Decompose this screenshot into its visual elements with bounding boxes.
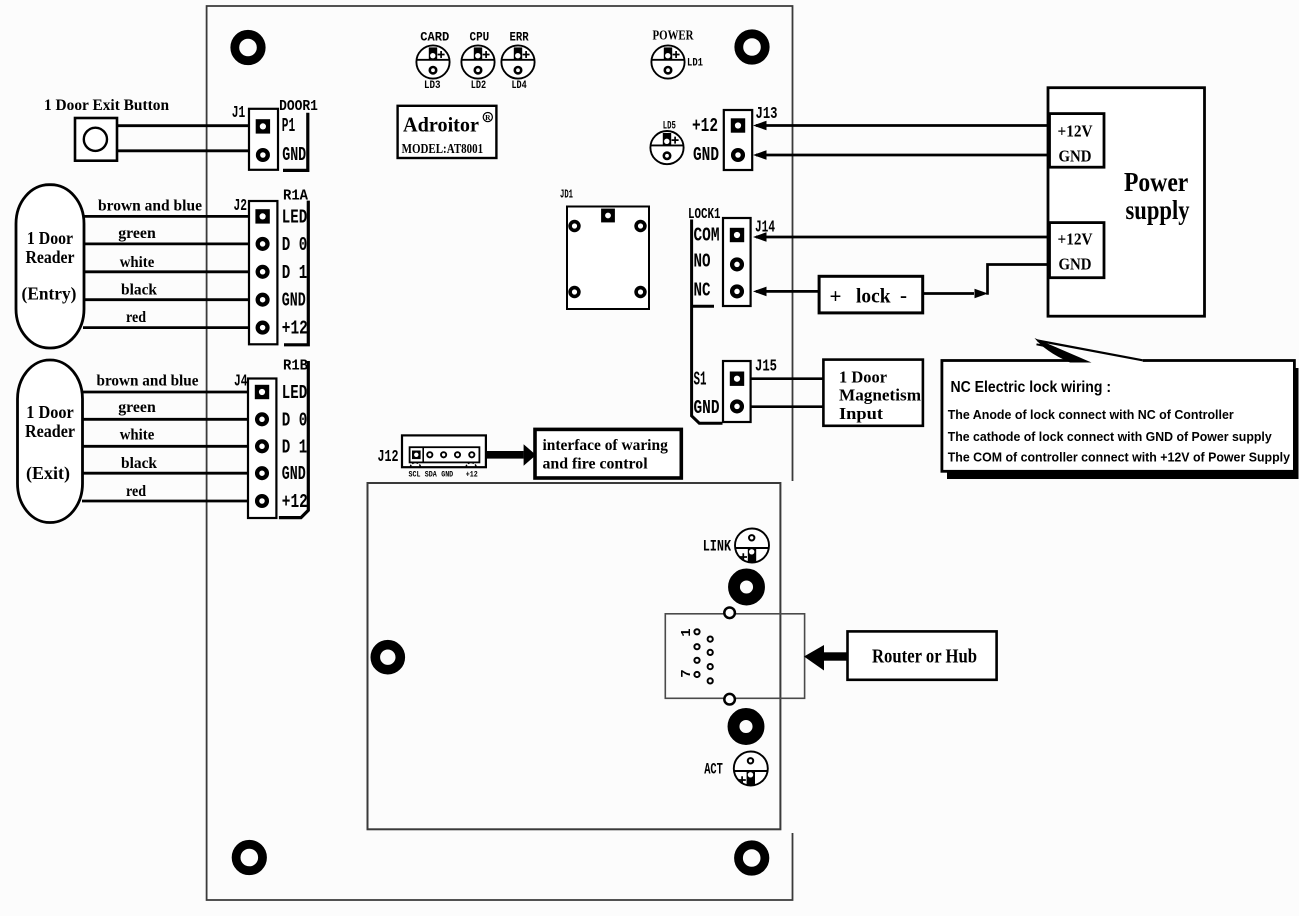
NC callout line 3	[948, 450, 1291, 465]
NC callout line 2	[948, 429, 1273, 444]
reader exit body	[18, 360, 83, 523]
pin label NC	[694, 280, 711, 302]
pin label D 1 J4	[282, 436, 308, 458]
wire label brown and blue exit	[97, 373, 199, 390]
svg-text:+12V: +12V	[1058, 121, 1094, 140]
svg-text:+: +	[830, 284, 842, 308]
svg-text:green: green	[118, 225, 156, 242]
label LINK	[703, 538, 732, 556]
label POWER	[653, 28, 694, 43]
mounting hole bottom-left	[236, 844, 262, 870]
svg-text:brown and blue: brown and blue	[98, 198, 202, 215]
wire entry reader white	[83, 270, 249, 273]
mounting hole top-right	[739, 34, 765, 60]
NC callout box	[942, 361, 1295, 472]
wire label white exit	[120, 427, 155, 444]
svg-text:red: red	[126, 483, 146, 500]
label J12	[378, 447, 399, 466]
svg-text:red: red	[126, 309, 146, 326]
wire exit reader red	[82, 500, 248, 503]
wire label black entry	[121, 282, 157, 299]
connector J13 power input header	[724, 110, 752, 170]
controller board outline	[207, 6, 793, 900]
svg-text:Reader: Reader	[25, 247, 74, 267]
wire exit reader brown and blue	[82, 391, 248, 394]
svg-text:CARD: CARD	[420, 29, 449, 44]
svg-text:1: 1	[679, 628, 695, 636]
svg-text:P1: P1	[282, 115, 295, 137]
label J14	[755, 218, 775, 237]
svg-text:J12: J12	[378, 447, 399, 466]
svg-text:D 1: D 1	[282, 262, 308, 284]
wire power +12V to J13	[753, 121, 1048, 131]
wire label red entry	[126, 309, 146, 326]
svg-text:J4: J4	[234, 372, 248, 391]
wire label green exit	[118, 399, 156, 416]
svg-text:The cathode of lock connect wi: The cathode of lock connect with GND of …	[948, 429, 1273, 444]
svg-text:LOCK1: LOCK1	[688, 207, 721, 223]
wire lock to J14 NC	[753, 287, 819, 297]
svg-text:white: white	[120, 427, 155, 444]
svg-text:Adroitor: Adroitor	[403, 113, 479, 137]
svg-text:J2: J2	[234, 196, 248, 215]
NC callout tail swoosh	[1035, 338, 1143, 363]
svg-text:black: black	[121, 455, 157, 472]
svg-text:D 0: D 0	[282, 409, 308, 431]
connector J14 lock relay header	[723, 218, 751, 306]
svg-text:1 Door: 1 Door	[839, 368, 887, 387]
svg-text:+12: +12	[466, 470, 478, 479]
RJ45 pins 1-8	[694, 629, 712, 683]
pin label D 0 J4	[282, 409, 308, 431]
svg-text:NC: NC	[694, 280, 711, 302]
wire label brown and blue entry	[98, 198, 202, 215]
label DOOR1	[279, 99, 318, 115]
wire exit reader white	[82, 445, 248, 448]
wire entry reader brown and blue	[83, 215, 249, 218]
wire magnetism S1	[751, 377, 824, 380]
pin label D 0 J2	[282, 234, 308, 256]
label J1	[232, 103, 246, 122]
RJ45 bottom mount pin	[724, 694, 735, 705]
label J15	[755, 357, 777, 376]
power supply terminal block 2	[1050, 223, 1105, 278]
label LD1	[687, 57, 703, 69]
pin label P1	[282, 115, 295, 137]
label LD5	[663, 120, 676, 132]
silkscreen R1A outline	[284, 201, 308, 345]
mounting hole below RJ45	[734, 714, 759, 739]
svg-text:LINK: LINK	[703, 538, 732, 556]
pin label GND J2	[282, 290, 306, 312]
RJ45 pin label 7	[679, 669, 695, 677]
wire entry reader green	[83, 242, 249, 245]
pin label LED J2	[282, 206, 307, 228]
svg-text:JD1: JD1	[560, 188, 573, 202]
LED LD5 symbol	[650, 131, 683, 164]
wire power +12V to J14 COM	[753, 232, 1048, 242]
label ERR	[510, 29, 529, 44]
svg-text:GND: GND	[282, 290, 306, 312]
svg-text:COM: COM	[694, 225, 720, 247]
svg-text:LD4: LD4	[511, 80, 526, 92]
svg-text:R1A: R1A	[283, 189, 308, 205]
svg-text:ERR: ERR	[510, 29, 529, 44]
door magnetism input box	[823, 360, 923, 426]
ethernet module outline	[368, 483, 781, 829]
svg-text:D 1: D 1	[282, 436, 308, 458]
svg-text:LD1: LD1	[687, 57, 703, 69]
svg-text:1 Door: 1 Door	[27, 228, 73, 248]
svg-text:POWER: POWER	[653, 28, 694, 43]
label R1B	[283, 359, 308, 375]
LED ACT symbol	[734, 752, 768, 786]
svg-text:GND: GND	[441, 470, 453, 479]
pin label GND J1	[282, 144, 306, 166]
svg-text:and fire control: and fire control	[543, 454, 649, 473]
label J13	[756, 104, 778, 123]
LED LD1 POWER symbol	[651, 45, 684, 78]
svg-text:GND: GND	[694, 397, 720, 419]
svg-text:1 Door Exit Button: 1 Door Exit Button	[44, 97, 169, 114]
wire exit reader black	[82, 472, 248, 475]
label LD3	[424, 80, 441, 92]
pin label D 1 J2	[282, 262, 308, 284]
pin label +12 J13	[692, 115, 718, 137]
connector J15 door sensor header	[723, 361, 751, 422]
svg-text:GND: GND	[1059, 146, 1092, 165]
NC callout title	[951, 379, 1112, 396]
svg-text:LED: LED	[282, 206, 307, 228]
wire label black exit	[121, 455, 157, 472]
exit button component	[75, 118, 117, 161]
label J4	[234, 372, 248, 391]
svg-text:NC Electric lock wiring :: NC Electric lock wiring :	[951, 379, 1112, 396]
svg-text:Reader: Reader	[25, 421, 75, 441]
label J2	[234, 196, 248, 215]
wire exit reader green	[82, 418, 248, 421]
label 1 Door Exit Button	[44, 97, 169, 114]
svg-text:The COM of controller connect: The COM of controller connect with +12V …	[948, 450, 1291, 465]
wire magnetism GND	[751, 405, 824, 408]
silkscreen LOCK1 outline	[692, 220, 723, 424]
svg-text:R: R	[485, 113, 491, 122]
connector J12 fire alarm interface	[402, 435, 486, 467]
svg-text:The Anode of lock connect with: The Anode of lock connect with NC of Con…	[948, 407, 1234, 422]
power supply terminal block 1	[1050, 114, 1105, 168]
svg-text:NO: NO	[694, 251, 711, 273]
svg-text:CPU: CPU	[470, 29, 490, 44]
wire lock to power GND	[923, 265, 1048, 299]
LED LD3 CARD symbol	[416, 45, 449, 78]
mounting hole above RJ45	[734, 575, 759, 600]
connector J4 reader exit header	[248, 379, 276, 519]
label LD2	[471, 80, 487, 92]
svg-text:supply: supply	[1126, 195, 1190, 225]
svg-text:J1: J1	[232, 103, 246, 122]
svg-text:interface of waring: interface of waring	[543, 435, 668, 454]
thick arrow J12 to interface box	[486, 444, 536, 466]
svg-text:lock: lock	[856, 284, 891, 308]
relay JD1	[567, 207, 649, 310]
silkscreen R1B outline	[279, 361, 308, 518]
NC callout shadow	[947, 368, 1299, 479]
pin label +12 J2	[282, 318, 308, 340]
svg-text:J15: J15	[755, 357, 777, 376]
label ACT	[704, 760, 723, 778]
svg-text:GND: GND	[282, 463, 306, 485]
svg-text:(Exit): (Exit)	[26, 463, 70, 484]
power supply box	[1048, 88, 1205, 317]
svg-text:GND: GND	[282, 144, 306, 166]
mounting hole ethernet left	[375, 645, 400, 670]
svg-text:R1B: R1B	[283, 359, 308, 375]
LED LINK symbol	[735, 529, 769, 563]
interface of waring box	[535, 429, 681, 478]
connector J1 exit button header	[249, 109, 278, 170]
label LD4	[511, 80, 526, 92]
label LOCK1	[688, 207, 721, 223]
svg-text:D 0: D 0	[282, 234, 308, 256]
wire label white entry	[120, 254, 155, 271]
wire label red exit	[126, 483, 146, 500]
svg-text:Router or Hub: Router or Hub	[872, 646, 977, 668]
label CARD	[420, 29, 449, 44]
svg-text:1 Door: 1 Door	[26, 402, 74, 422]
wire button to J1 P1	[117, 124, 249, 127]
pin labels SCL SDA GND +12	[409, 470, 478, 479]
label R1A	[283, 189, 308, 205]
pin label COM	[694, 225, 720, 247]
svg-text:green: green	[118, 399, 156, 416]
svg-text:+12: +12	[282, 491, 308, 513]
svg-text:DOOR1: DOOR1	[279, 99, 318, 115]
svg-text:Magnetism: Magnetism	[839, 386, 921, 405]
svg-text:-: -	[900, 283, 907, 307]
wire entry reader black	[83, 298, 249, 301]
svg-text:black: black	[121, 282, 157, 299]
mounting hole top-left	[235, 34, 261, 60]
svg-text:brown and blue: brown and blue	[97, 373, 199, 390]
pin label NO	[694, 251, 711, 273]
NC callout line 1	[948, 407, 1234, 422]
svg-text:LD2: LD2	[471, 80, 487, 92]
RJ45 top mount pin	[724, 608, 735, 619]
svg-text:GND: GND	[693, 144, 719, 166]
RJ45 pin label 1	[679, 628, 695, 636]
wire label green entry	[118, 225, 156, 242]
label JD1	[560, 188, 573, 202]
LED LD2 CPU symbol	[461, 45, 494, 78]
svg-text:S1: S1	[694, 369, 707, 391]
svg-text:(Entry): (Entry)	[22, 284, 77, 305]
wire button to J1 GND	[117, 149, 249, 152]
svg-text:+12: +12	[282, 318, 308, 340]
svg-text:+12V: +12V	[1058, 229, 1094, 248]
svg-text:MODEL:AT8001: MODEL:AT8001	[402, 142, 484, 157]
thick arrow router to RJ45	[804, 645, 848, 671]
svg-text:GND: GND	[1059, 255, 1092, 274]
LED LD4 ERR symbol	[501, 45, 534, 78]
pin label GND J13	[693, 144, 719, 166]
svg-text:ACT: ACT	[704, 760, 723, 778]
lock box	[819, 276, 923, 313]
svg-text:SDA: SDA	[425, 470, 437, 479]
NC callout tail gap	[1078, 358, 1143, 363]
wire power GND to J13	[753, 150, 1048, 160]
svg-text:Power: Power	[1124, 167, 1188, 197]
pin label +12 J4	[282, 491, 308, 513]
svg-text:J13: J13	[756, 104, 778, 123]
svg-text:LD3: LD3	[424, 80, 441, 92]
Router or Hub box	[848, 631, 997, 679]
reader entry body	[16, 185, 84, 348]
pin label GND J4	[282, 463, 306, 485]
pin label S1	[694, 369, 707, 391]
svg-text:+12: +12	[692, 115, 718, 137]
silkscreen DOOR1 outline	[283, 113, 308, 171]
Adroitor logo box	[398, 106, 497, 158]
pin label GND J15	[694, 397, 720, 419]
svg-text:LED: LED	[282, 382, 307, 404]
wire entry reader red	[83, 326, 249, 329]
label CPU	[470, 29, 490, 44]
svg-text:white: white	[120, 254, 155, 271]
mounting hole bottom-right	[739, 845, 765, 871]
connector J2 reader entry header	[249, 201, 277, 344]
RJ45 jack outline	[665, 614, 804, 699]
svg-text:SCL: SCL	[409, 470, 421, 479]
pin label LED J4	[282, 382, 307, 404]
svg-text:Input: Input	[839, 404, 883, 423]
svg-text:7: 7	[679, 669, 695, 677]
